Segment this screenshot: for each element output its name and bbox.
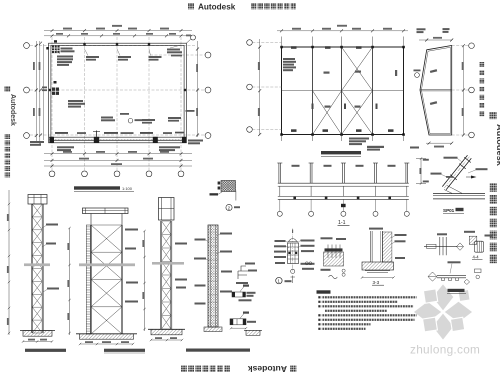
detail 1 right labels bbox=[301, 240, 315, 270]
bottom wall columns bbox=[49, 137, 186, 143]
axis bubble B left bbox=[24, 87, 30, 93]
svg-text:3-3: 3-3 bbox=[373, 280, 380, 285]
col3 leaders bbox=[175, 243, 187, 289]
left axis bubbles bbox=[247, 40, 253, 46]
labels sp01 bbox=[431, 157, 488, 178]
bracing plan title bbox=[321, 151, 361, 154]
ground band col1 bbox=[24, 263, 50, 266]
annotation cluster a4 bbox=[149, 56, 162, 61]
svg-text:Autodesk: Autodesk bbox=[495, 124, 500, 167]
axis bubble 3 bottom bbox=[114, 171, 120, 177]
gable bottom dim bbox=[426, 142, 452, 144]
gable mid rail bbox=[421, 88, 452, 90]
col2 beam supports bbox=[90, 214, 92, 226]
SP01 diagonal brace member bbox=[442, 155, 471, 190]
anchor bolts bbox=[328, 245, 340, 259]
leader lines annotations bbox=[56, 45, 181, 56]
grid line axis 3 bbox=[116, 37, 118, 170]
member end plates bbox=[450, 157, 471, 180]
side pieces bbox=[475, 269, 482, 273]
axis bubble C right bbox=[205, 52, 211, 58]
zhulong logo pinwheel bbox=[413, 284, 473, 341]
axis bubble B right bbox=[205, 87, 211, 93]
embed plate labels bbox=[321, 237, 347, 240]
detail 1 top bracket bbox=[289, 239, 297, 242]
axis bubble 4 bottom bbox=[146, 171, 152, 177]
small footing block bbox=[246, 330, 260, 335]
annotation cluster a1 bbox=[57, 48, 75, 66]
column line 4 bbox=[372, 47, 374, 135]
labels below bbox=[321, 269, 331, 271]
grid line axis C bbox=[30, 45, 195, 47]
GKZ labels bbox=[292, 165, 396, 167]
top dimension texts bbox=[56, 25, 176, 35]
right small bowtie bbox=[464, 279, 470, 284]
svg-text:Autodesk: Autodesk bbox=[198, 2, 236, 11]
column detail box mid-left bbox=[52, 40, 59, 95]
gable top dim bbox=[419, 39, 452, 41]
col2 web bbox=[91, 225, 122, 334]
gable top labels bbox=[417, 28, 450, 33]
tabs bbox=[442, 278, 459, 281]
col3 footing bbox=[151, 329, 182, 335]
svg-text:Autodesk: Autodesk bbox=[248, 364, 287, 374]
column line 3 bbox=[341, 47, 343, 135]
annotation cluster a3 bbox=[118, 56, 131, 61]
col2 wall strip bbox=[86, 225, 90, 334]
grid line axis 1 bbox=[51, 37, 53, 170]
concrete block bbox=[324, 252, 344, 266]
connector assembly 1 bbox=[232, 285, 256, 302]
bottom annotation cluster bbox=[349, 138, 369, 146]
notes lines bbox=[322, 296, 417, 330]
bay node squares bbox=[293, 197, 391, 200]
annotation mid clusters bbox=[101, 110, 195, 124]
section bubble in plan bbox=[128, 118, 133, 123]
svg-text:SP01: SP01 bbox=[443, 208, 455, 213]
grid line axis A bbox=[30, 134, 205, 136]
col3 chords bbox=[161, 221, 172, 329]
svg-text:4-4: 4-4 bbox=[473, 254, 480, 259]
annotation row on bottom wall bbox=[55, 132, 184, 134]
roof bracing plan outline bbox=[282, 47, 404, 135]
col3 base dim bbox=[151, 339, 182, 341]
left annotation cluster bbox=[283, 58, 296, 71]
col3 dim line left bbox=[144, 231, 146, 331]
axis bubble 2 bottom bbox=[82, 171, 88, 177]
midline member ticks bbox=[312, 104, 378, 110]
X brace bay2 lower bbox=[313, 91, 342, 135]
detail 4-4 beam line bbox=[424, 245, 457, 247]
col2 leaders bbox=[125, 229, 138, 303]
left dimension texts bbox=[33, 62, 40, 116]
left edge dim line bbox=[8, 190, 10, 335]
connectors bbox=[280, 186, 407, 196]
mid purlin line bbox=[282, 90, 404, 92]
top tick extensions bbox=[282, 37, 404, 48]
lattice column HJ21 chords bbox=[31, 204, 43, 333]
bolt box bbox=[475, 241, 484, 252]
grid line axis 4 bbox=[148, 37, 150, 170]
col3 top box bbox=[159, 198, 175, 221]
col2 chords bbox=[91, 225, 123, 334]
col1 leaders bbox=[46, 224, 59, 290]
small circles pair bbox=[342, 269, 345, 272]
right edge Autodesk stamp (vertical) bbox=[490, 112, 497, 119]
direction arrow bbox=[471, 176, 477, 179]
lattice column HJ21 web bbox=[32, 204, 42, 333]
left bowtie bbox=[428, 272, 437, 281]
col2 caption bbox=[104, 349, 145, 352]
numbering marks bbox=[318, 296, 320, 330]
bottom dimension lines bbox=[44, 154, 192, 166]
plan title bbox=[74, 186, 134, 192]
X brace bay3 lower bbox=[342, 91, 373, 135]
dimension ticks left bbox=[35, 42, 42, 145]
beam lines bbox=[278, 182, 409, 184]
dim bbox=[362, 277, 394, 279]
upper annotation bars bbox=[367, 146, 384, 148]
right leaders bbox=[395, 234, 407, 259]
col2 footing bbox=[80, 334, 134, 339]
detail bubble 2 bbox=[226, 204, 232, 210]
concrete column leaders bbox=[194, 233, 232, 305]
right bubble bbox=[415, 73, 420, 78]
top labels bbox=[369, 228, 383, 230]
ground band col3 bbox=[152, 262, 184, 265]
section marks bbox=[292, 276, 294, 284]
column line 2 bbox=[312, 47, 314, 135]
right dimension line bbox=[197, 41, 199, 137]
SC labels bbox=[324, 70, 398, 108]
dim line between col1 col2 bbox=[69, 228, 71, 335]
top Autodesk educational plot stamp bbox=[188, 3, 194, 9]
dimension ticks top bbox=[51, 29, 183, 37]
X brace bay3 upper bbox=[342, 47, 373, 91]
detail 1 left labels bbox=[274, 240, 286, 264]
detail 1 bubble bbox=[276, 277, 282, 283]
gable right bubbles bbox=[469, 43, 475, 49]
top hatched box bbox=[221, 181, 236, 192]
ground band col2 bbox=[79, 263, 135, 266]
grid line axis B bbox=[30, 89, 205, 91]
S3 labels bbox=[430, 69, 437, 73]
node squares top bbox=[280, 46, 405, 136]
break squiggle bbox=[329, 275, 338, 278]
concrete column detail bbox=[208, 225, 218, 327]
detail 3-3 column bbox=[371, 231, 383, 262]
left dimension lines bbox=[36, 41, 43, 142]
col1 base dim bbox=[23, 341, 52, 343]
bowtie bolt symbol bbox=[457, 243, 464, 250]
concrete column footing bbox=[204, 327, 222, 332]
C detail bar bbox=[437, 274, 466, 276]
vertical dimension bracket bbox=[420, 159, 422, 184]
notes title bbox=[317, 290, 331, 293]
top dimension line 1 bbox=[44, 31, 192, 36]
bracket detail upper bbox=[238, 266, 250, 279]
connector assembly 2 bbox=[230, 312, 256, 330]
left dim line bbox=[259, 39, 261, 135]
gable wall elevation outline bbox=[420, 46, 452, 136]
section 1-1 columns bbox=[279, 163, 408, 183]
annotation cluster a2 bbox=[86, 56, 99, 61]
axis bubble A right bbox=[205, 133, 211, 139]
end plate rect bbox=[427, 244, 437, 248]
C detail label bbox=[448, 289, 465, 292]
detail 1 body bbox=[288, 243, 299, 264]
secondary axis right bbox=[150, 54, 205, 56]
twin circles bbox=[305, 262, 308, 265]
small wall ticks bbox=[46, 43, 186, 91]
axis bubble C left bbox=[24, 43, 30, 49]
col3 caption long bbox=[186, 349, 250, 352]
annotation cluster a5 top-right bbox=[167, 49, 182, 57]
axis bubble A left bbox=[24, 133, 30, 139]
column detail box top-left bbox=[52, 46, 60, 54]
bottom circle bbox=[291, 269, 295, 273]
beam top flange bbox=[433, 193, 485, 195]
section axis bubbles bbox=[277, 211, 282, 216]
lattice column HJ21 top box bbox=[28, 195, 47, 205]
gable vertical title bbox=[479, 62, 484, 116]
bottom Autodesk stamp (rotated 180) bbox=[181, 366, 230, 372]
svg-text:1-1: 1-1 bbox=[338, 220, 346, 226]
top dimension line bbox=[277, 30, 408, 32]
grid line axis 5 bbox=[180, 37, 182, 170]
chord member labels bbox=[291, 46, 394, 132]
svg-text:Autodesk: Autodesk bbox=[9, 94, 16, 126]
svg-text:zhulong.com: zhulong.com bbox=[410, 343, 480, 357]
building outer walls bbox=[49, 43, 187, 143]
col2 base dim bbox=[80, 343, 133, 345]
column cap ticks bbox=[277, 162, 409, 164]
bottom tick extensions bbox=[282, 135, 404, 142]
gable right dim line bbox=[463, 46, 465, 135]
axis bubble 1 bottom bbox=[49, 171, 55, 177]
triple plates bbox=[440, 237, 446, 255]
footing bbox=[362, 262, 394, 270]
col2 top beam bbox=[83, 208, 129, 214]
C detail leader bbox=[448, 261, 461, 263]
col1 caption bbox=[25, 349, 66, 352]
leaders bbox=[437, 231, 493, 237]
corner detail bubble bbox=[191, 35, 196, 40]
col1 footing bbox=[23, 331, 52, 337]
bottom wall band bbox=[49, 139, 187, 141]
grid line axis 2 bbox=[84, 37, 86, 170]
svg-text:1:100: 1:100 bbox=[122, 186, 133, 191]
annotation clusters below wall bbox=[30, 140, 203, 152]
annotation left-outside B bbox=[42, 87, 85, 108]
center base mark bbox=[341, 204, 346, 207]
left edge Autodesk stamp (vertical) bbox=[5, 86, 11, 92]
hatched wall strip bbox=[382, 232, 392, 262]
detail 1 axis bbox=[292, 229, 294, 273]
axis bubble 5 bottom bbox=[178, 171, 184, 177]
base plate bbox=[325, 248, 343, 251]
gusset plate bbox=[444, 186, 462, 194]
hatched plate bbox=[469, 236, 477, 244]
col3 web bbox=[162, 221, 172, 329]
